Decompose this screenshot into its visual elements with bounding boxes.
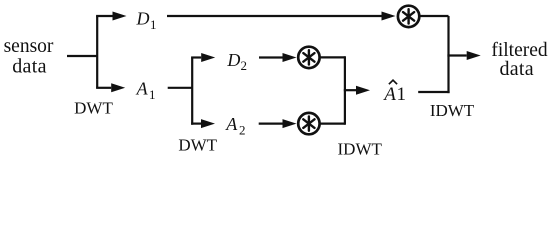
wire arrow to filtered data: [447, 54, 466, 56]
wire top circle output: [420, 15, 448, 17]
thresholding circle (D1 branch, top): [398, 6, 419, 27]
svg-text:2: 2: [239, 123, 246, 138]
thresholding circle (A2 branch): [298, 113, 319, 134]
svg-text:data: data: [12, 56, 47, 78]
wire A2 to lower thresholding circle: [259, 122, 283, 124]
svg-text:1: 1: [150, 17, 157, 32]
svg-text:D: D: [136, 8, 150, 28]
wire arrow to D1: [96, 15, 112, 17]
wire IDWT merge vertical: [344, 56, 346, 124]
wire A-hat-1 to output vertical: [418, 91, 449, 93]
wire D2 to mid thresholding circle: [259, 56, 283, 58]
wire output merge vertical: [447, 16, 449, 93]
svg-text:1: 1: [149, 87, 156, 102]
svg-text:A: A: [382, 84, 396, 105]
svg-text:DWT: DWT: [178, 135, 217, 154]
wire arrow to A1: [96, 87, 111, 89]
wire A1 to DWT split 2: [168, 87, 193, 89]
svg-text:DWT: DWT: [74, 98, 113, 117]
wire DWT split 2 vertical: [191, 58, 193, 125]
svg-text:2: 2: [241, 58, 248, 73]
svg-text:IDWT: IDWT: [338, 140, 383, 159]
wire sensor-data to DWT split: [67, 55, 97, 57]
wire arrow to D2: [191, 56, 201, 58]
svg-text:sensor: sensor: [4, 36, 54, 57]
wire A2-circle output to merge: [321, 122, 345, 124]
svg-text:data: data: [499, 58, 534, 80]
wire D2-circle output to merge: [321, 56, 345, 58]
wire D1 to top thresholding circle: [167, 15, 382, 17]
svg-text:A: A: [225, 114, 238, 134]
wire arrow to A-hat-1: [344, 89, 356, 91]
svg-text:1: 1: [397, 84, 407, 105]
svg-text:A: A: [136, 79, 149, 99]
svg-text:IDWT: IDWT: [430, 101, 475, 120]
wire arrow to A2: [191, 122, 201, 124]
wire DWT split 1 vertical: [96, 16, 98, 88]
thresholding circle (D2 branch): [298, 47, 319, 68]
svg-text:D: D: [226, 50, 240, 70]
